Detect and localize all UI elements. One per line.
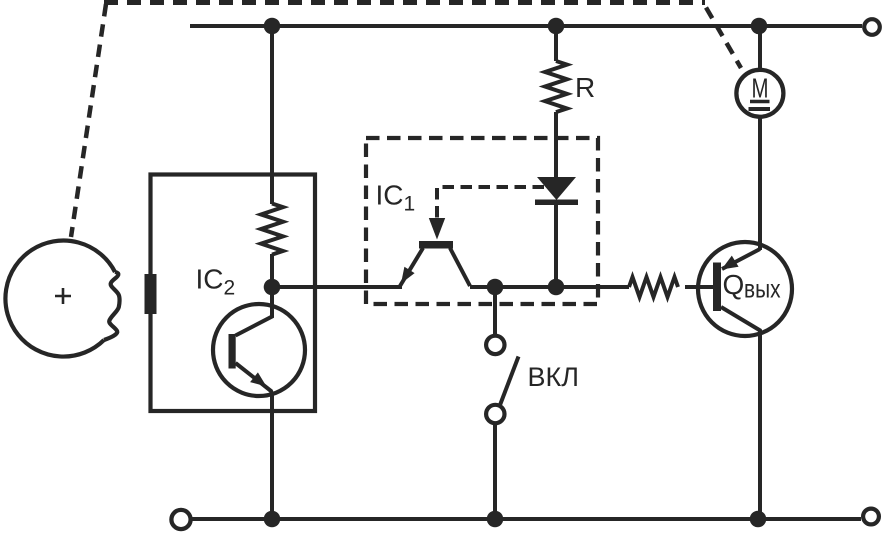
junction dot: top rail / motor branch	[751, 18, 768, 35]
phototransistor IC1 emitter lead	[400, 248, 423, 286]
phototransistor IC1 base bar	[419, 241, 453, 249]
wire: top rail to resistor R	[554, 26, 558, 61]
svg-text:R: R	[575, 72, 595, 103]
wire: IC2 resistor to node	[270, 254, 274, 287]
phototransistor IC1 collector lead	[450, 248, 470, 286]
wire: IC2 emitter to bottom rail	[270, 394, 274, 519]
motor underline 2	[749, 107, 771, 111]
wire: IC1 collector to base resistor	[470, 285, 629, 289]
junction dot: top rail / R branch	[548, 18, 565, 35]
IC2 photo element bar	[145, 274, 157, 314]
wire: IC2 node to IC1 emitter	[272, 285, 402, 289]
transistor Qout collector lead (bottom)	[721, 307, 761, 331]
svg-text:Qвых: Qвых	[723, 269, 781, 304]
transistor IC2 emitter arrow	[250, 372, 266, 386]
junction dot: bottom rail / IC2	[264, 511, 281, 528]
transistor Qout emitter arrow	[722, 256, 739, 270]
junction dot: bottom rail / Qout	[750, 511, 767, 528]
transistor Qout emitter lead (top)	[722, 249, 760, 269]
dashed mechanical link: top horizontal	[104, 0, 705, 5]
switch bottom contact circle	[486, 405, 504, 423]
wire: Qout collector to bottom rail	[758, 330, 762, 519]
lamp plus sign	[55, 288, 71, 304]
terminal: top right open circle	[864, 19, 880, 35]
diode triangle	[537, 177, 576, 200]
junction dot: switch branch	[487, 279, 504, 296]
resistor inside IC2	[261, 204, 283, 255]
transistor Qout circle	[698, 242, 792, 336]
switch top contact circle	[486, 336, 504, 354]
wire: switch to bottom rail	[493, 423, 497, 519]
terminal: bottom left open circle	[171, 510, 190, 529]
wire: top supply rail	[190, 24, 862, 28]
transistor IC2 base bar	[229, 334, 236, 369]
dashed mechanical link: left diagonal to lamp	[71, 4, 106, 237]
lamp body with notch	[5, 241, 115, 357]
dashed light arrowhead	[429, 218, 445, 240]
phototransistor IC1 emitter arrow	[401, 267, 415, 284]
base resistor of output transistor	[629, 277, 678, 297]
dashed mechanical link: right diagonal to motor	[704, 4, 741, 68]
dashed light arrow: horizontal from diode	[437, 187, 544, 221]
resistor R	[545, 61, 567, 112]
junction dot: bottom rail / switch	[487, 511, 504, 528]
transistor IC2 emitter lead	[236, 363, 273, 394]
wire: top rail to IC2 resistor	[270, 26, 274, 204]
IC2 box	[151, 175, 316, 412]
wire: diode to node	[554, 205, 558, 287]
junction dot: top rail / IC2 branch	[264, 18, 281, 35]
switch lever	[500, 357, 519, 406]
junction dot: diode branch	[548, 279, 565, 296]
wire: bottom rail	[192, 517, 861, 521]
wire: base resistor to Qout base	[685, 285, 713, 289]
transistor IC2 circle	[213, 304, 305, 396]
motor underline 1	[750, 100, 770, 104]
terminal: bottom right open circle	[863, 509, 879, 525]
diode cathode bar	[535, 200, 578, 206]
wire: switch node down	[493, 287, 497, 336]
lamp notch wavy edge	[104, 272, 120, 340]
wire: motor to Qout emitter	[758, 118, 762, 250]
svg-text:ВКЛ: ВКЛ	[528, 362, 579, 392]
wire: top rail to motor	[758, 26, 762, 69]
svg-text:M: M	[752, 73, 769, 104]
transistor IC2 collector lead	[236, 287, 273, 336]
node dot: IC2 output node	[264, 279, 281, 296]
IC1 dashed box	[366, 138, 598, 304]
transistor Qout base bar	[713, 263, 721, 312]
motor circle	[736, 70, 783, 117]
wire: resistor R to diode	[554, 112, 558, 178]
